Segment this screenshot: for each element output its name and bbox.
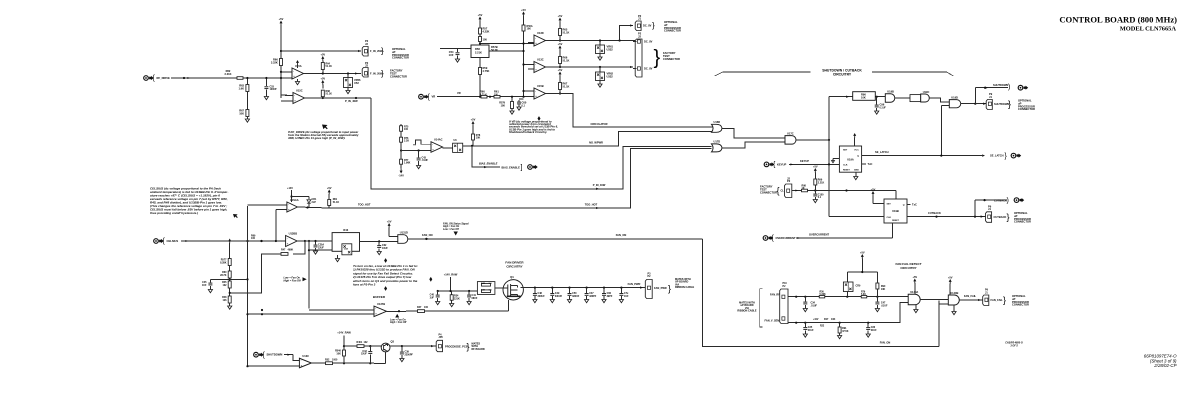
svg-text:01UF: 01UF (808, 329, 814, 332)
svg-text:4.22K: 4.22K (483, 30, 490, 34)
svg-text:VCC: VCC (854, 150, 859, 152)
svg-text:51.1K: 51.1K (326, 93, 333, 96)
svg-text:BIAS_ENABLE: BIAS_ENABLE (479, 161, 498, 165)
svg-text:CUTBACK: CUTBACK (928, 211, 941, 215)
svg-text:): ) (1008, 84, 1010, 91)
svg-text:+5V: +5V (478, 13, 483, 17)
svg-text:CONTROL BOARD (800 MHz): CONTROL BOARD (800 MHz) (1059, 14, 1177, 24)
svg-text:BUFFER: BUFFER (373, 295, 386, 299)
svg-text:-14V: -14V (398, 173, 404, 177)
svg-text:R61: R61 (494, 90, 499, 94)
svg-text:10K: 10K (881, 288, 886, 291)
svg-text:SHUTDOWN: SHUTDOWN (267, 353, 283, 357)
svg-text:100: 100 (483, 38, 488, 42)
svg-text:1000: 1000 (332, 358, 338, 361)
svg-text:U13BB: U13BB (289, 231, 298, 235)
svg-text:2.2K: 2.2K (404, 140, 409, 143)
svg-text:2.21K: 2.21K (225, 72, 232, 76)
svg-text:10K: 10K (861, 96, 866, 100)
svg-text:102: 102 (223, 284, 228, 287)
svg-text:330UF: 330UF (572, 295, 580, 298)
svg-text:TOO_HOT: TOO_HOT (585, 202, 598, 206)
svg-text:0.1UF: 0.1UF (880, 108, 887, 110)
svg-text:U19C: U19C (923, 90, 930, 94)
svg-text:5.36K: 5.36K (820, 294, 826, 296)
svg-text:100: 100 (424, 306, 429, 309)
svg-text:CLK: CLK (843, 165, 848, 167)
svg-text:+5V: +5V (813, 164, 818, 168)
svg-text:OVERCURRENT: OVERCURRENT (776, 236, 796, 240)
svg-text:U322: U322 (607, 75, 614, 79)
svg-text:DC_8V: DC_8V (644, 40, 653, 44)
svg-text:40W, U15BC-Pin 13 goes high (P: 40W, U15BC-Pin 13 goes high (P_IN_40W). (287, 136, 346, 140)
svg-text:1K: 1K (802, 187, 805, 190)
svg-text:CR9: CR9 (856, 285, 861, 288)
svg-text:U17D: U17D (714, 140, 721, 144)
svg-text:MODEL CLN7665A: MODEL CLN7665A (1120, 26, 1177, 33)
svg-text:P_IN_40W: P_IN_40W (593, 183, 606, 187)
svg-text:GND: GND (854, 169, 859, 171)
svg-text:}: } (654, 47, 661, 69)
svg-text:-: - (301, 359, 302, 362)
svg-text:High = Fan Off: High = Fan Off (390, 321, 407, 324)
svg-text:NO_WPWR: NO_WPWR (589, 141, 603, 145)
svg-text:.01UF: .01UF (422, 159, 429, 162)
svg-text:RF BOARD: RF BOARD (472, 348, 485, 351)
svg-text:KEYUP: KEYUP (777, 162, 786, 166)
svg-text:3.32K: 3.32K (271, 61, 278, 65)
svg-text:-: - (293, 70, 294, 73)
svg-text:01UF: 01UF (871, 329, 877, 332)
svg-text:FAN_FAIL: FAN_FAIL (964, 294, 977, 298)
svg-text:FAN_PWR: FAN_PWR (654, 286, 667, 290)
svg-text:U19B: U19B (887, 90, 894, 94)
svg-text:RF_DRIVE: RF_DRIVE (157, 76, 170, 80)
svg-text:R47: R47 (417, 306, 422, 309)
svg-text:2.21K: 2.21K (475, 50, 482, 54)
svg-text:51.1K: 51.1K (563, 31, 570, 35)
svg-text:100: 100 (251, 237, 256, 240)
svg-text:51.1K: 51.1K (563, 59, 570, 63)
svg-text:2.21K: 2.21K (818, 181, 825, 184)
svg-text:U19A: U19A (847, 158, 854, 162)
svg-text:OVERCURRENT: OVERCURRENT (809, 233, 829, 237)
svg-text:1.96K: 1.96K (404, 162, 411, 165)
svg-text:10UF: 10UF (382, 247, 388, 250)
svg-text:}: } (1008, 99, 1011, 109)
svg-text:39PF: 39PF (607, 295, 613, 298)
svg-text:+5V: +5V (387, 219, 392, 223)
svg-text:+10V: +10V (813, 319, 819, 321)
svg-text:RIBBON CABLE: RIBBON CABLE (737, 310, 756, 313)
svg-text:10K: 10K (239, 112, 244, 116)
svg-text:.01UF: .01UF (881, 305, 888, 308)
svg-text:102: 102 (364, 341, 369, 344)
svg-text:JP0: JP0 (439, 336, 444, 339)
svg-text:4.75 K: 4.75 K (480, 93, 487, 96)
svg-text:-: - (535, 63, 536, 66)
svg-text:Shutdown/Cutback Circuitry.: Shutdown/Cutback Circuitry. (509, 130, 548, 134)
svg-text:CELSIUS: CELSIUS (167, 239, 179, 243)
svg-text:330PF: 330PF (589, 295, 597, 298)
svg-text:R43: R43 (343, 228, 348, 232)
svg-text:R52: R52 (325, 358, 330, 361)
svg-text:8.28K: 8.28K (220, 261, 227, 264)
svg-text:): ) (1007, 197, 1009, 204)
svg-text:RESET: RESET (843, 169, 850, 171)
svg-text:+5V: +5V (320, 76, 325, 80)
svg-text:}: } (1007, 212, 1010, 222)
svg-text:KEYUP: KEYUP (800, 159, 809, 163)
svg-text:FAN_PWR: FAN_PWR (628, 282, 641, 286)
svg-text:DC_8V: DC_8V (644, 67, 653, 71)
svg-text:FAN_ON: FAN_ON (422, 233, 433, 237)
svg-text:51.1K: 51.1K (326, 65, 333, 68)
svg-text:CONNECTOR: CONNECTOR (1014, 220, 1031, 224)
svg-text:R47: R47 (281, 249, 286, 252)
svg-text:+14V_RAW: +14V_RAW (337, 331, 351, 335)
svg-text:47.5K: 47.5K (842, 330, 849, 333)
svg-text:}: } (652, 21, 655, 30)
svg-text:1000P: 1000P (270, 88, 277, 91)
svg-text:CONNECTOR: CONNECTOR (1012, 303, 1029, 307)
svg-text:15UF: 15UF (361, 353, 367, 356)
svg-text:FAN_ON: FAN_ON (616, 233, 627, 237)
svg-text:+5V: +5V (558, 14, 563, 18)
svg-text:2200PF: 2200PF (405, 353, 414, 356)
svg-text:U15C: U15C (296, 88, 303, 92)
svg-text:fans at P3-Pin 3: fans at P3-Pin 3 (353, 283, 376, 287)
svg-text:10K: 10K (527, 28, 532, 31)
svg-text:SET: SET (887, 204, 892, 206)
svg-text:+5V: +5V (558, 68, 563, 72)
svg-text:TxC: TxC (868, 162, 873, 166)
svg-text:28.7K: 28.7K (220, 274, 227, 277)
svg-text:P_IN_40W: P_IN_40W (345, 99, 358, 103)
svg-text:R401: R401 (357, 341, 363, 344)
svg-text:}: } (1003, 295, 1006, 305)
svg-text:68UF: 68UF (472, 297, 478, 300)
svg-text:+5V: +5V (871, 187, 876, 191)
svg-text:.01UF: .01UF (811, 305, 818, 308)
svg-text:U137B: U137B (377, 302, 385, 306)
svg-text:330UF: 330UF (555, 295, 563, 298)
svg-text:RESET: RESET (892, 220, 899, 222)
svg-text:SE_LATCH: SE_LATCH (990, 154, 1004, 158)
svg-text:+14V_RAW: +14V_RAW (444, 272, 458, 276)
svg-text:FAN_ON: FAN_ON (880, 341, 891, 345)
svg-text:CIRCULATOR: CIRCULATOR (591, 122, 608, 126)
svg-text:U19D: U19D (951, 95, 958, 99)
svg-text:CONNECTOR: CONNECTOR (1018, 107, 1035, 111)
svg-text:U322: U322 (607, 48, 614, 52)
svg-text:CIRCUITRY: CIRCUITRY (900, 266, 916, 270)
svg-text:CONNECTOR: CONNECTOR (392, 56, 409, 60)
svg-text:]: ] (521, 165, 523, 172)
svg-text:High = Fan Off: High = Fan Off (284, 279, 302, 282)
svg-text:P2: P2 (787, 179, 791, 183)
svg-text:CONNECTOR: CONNECTOR (664, 29, 681, 33)
svg-text:10K: 10K (831, 318, 836, 321)
svg-text:U16D: U16D (714, 120, 721, 124)
svg-text:+5V: +5V (327, 186, 332, 190)
svg-text:U13C: U13C (537, 57, 544, 61)
svg-text:2/28/02-CP: 2/28/02-CP (1153, 363, 1176, 368)
svg-text:+5V: +5V (279, 17, 284, 21)
svg-text:{: { (777, 185, 780, 195)
svg-text:U13D: U13D (537, 31, 544, 35)
svg-text:VR: VR (432, 95, 436, 99)
svg-text:SET: SET (843, 150, 848, 152)
svg-text:+5V: +5V (912, 275, 917, 279)
svg-text:-: - (535, 90, 536, 93)
svg-text:CL: CL (781, 190, 785, 193)
svg-text:1UF: 1UF (429, 296, 434, 299)
svg-text:Low = Fan Off: Low = Fan Off (443, 228, 459, 231)
svg-text:-: - (287, 237, 288, 240)
svg-text:TxC: TxC (912, 203, 917, 207)
svg-text:PROCDIODE_PCB: PROCDIODE_PCB (445, 344, 468, 348)
svg-text:5.3K: 5.3K (861, 294, 866, 296)
svg-text:-: - (432, 143, 433, 146)
svg-text:10K: 10K (501, 105, 506, 108)
svg-text:-: - (375, 308, 376, 311)
svg-text:126: 126 (223, 299, 228, 302)
svg-text:1UF: 1UF (202, 284, 207, 287)
svg-text:-: - (288, 203, 289, 206)
svg-text:Q3: Q3 (391, 340, 395, 344)
svg-text:SHUTDOWN: SHUTDOWN (993, 83, 1008, 87)
svg-text:U140B: U140B (950, 291, 958, 295)
svg-text:U15A: U15A (295, 64, 302, 68)
svg-text:3 OF 5: 3 OF 5 (1010, 345, 1018, 348)
svg-text:CONNECTOR: CONNECTOR (390, 74, 407, 78)
svg-text:FAN_FAIL: FAN_FAIL (991, 298, 1004, 302)
svg-text:51.1K: 51.1K (563, 85, 570, 89)
svg-text:Q: Q (857, 156, 859, 158)
svg-text:CIRCUITRY: CIRCUITRY (506, 264, 522, 268)
svg-text:51.1K: 51.1K (333, 201, 340, 204)
svg-text:}: } (381, 69, 384, 78)
svg-text:U15B: U15B (537, 84, 544, 88)
svg-text:+5V: +5V (521, 8, 526, 12)
svg-text:1.9K: 1.9K (239, 87, 245, 91)
svg-text:1UF: 1UF (449, 53, 454, 57)
svg-text:U131D: U131D (400, 231, 408, 235)
svg-text:U14AC: U14AC (434, 138, 443, 142)
svg-text:RIBBON CABLE: RIBBON CABLE (675, 286, 694, 289)
svg-text:+14V: +14V (287, 187, 293, 190)
svg-text:CONNECTOR: CONNECTOR (663, 57, 680, 61)
svg-text:}: } (381, 47, 384, 56)
svg-text:U17C: U17C (787, 131, 794, 135)
svg-text:CLK: CLK (887, 217, 892, 219)
svg-text:10K: 10K (336, 352, 341, 355)
svg-text:499K: 499K (288, 249, 294, 252)
svg-text:2LP: 2LP (312, 201, 317, 204)
svg-text:R60: R60 (480, 90, 485, 94)
svg-text:U19B: U19B (892, 209, 899, 213)
svg-text:4.75K: 4.75K (483, 69, 490, 73)
svg-text:SE_LATCH: SE_LATCH (875, 150, 889, 154)
svg-text:+5V: +5V (558, 42, 563, 46)
svg-text:Q: Q (903, 205, 905, 207)
svg-text:R22: R22 (820, 326, 825, 328)
svg-text:CUTBACK: CUTBACK (994, 198, 1007, 202)
svg-text:R17: R17 (824, 318, 829, 321)
svg-text:+5V: +5V (320, 52, 325, 56)
svg-text:-: - (535, 37, 536, 40)
svg-text:+5V: +5V (860, 250, 865, 254)
svg-text:U13C: U13C (302, 354, 309, 358)
svg-text:R58: R58 (475, 47, 480, 51)
svg-text:10K: 10K (476, 137, 481, 140)
svg-text:TR: TR (413, 144, 416, 146)
svg-text:BIAS_ENABLE: BIAS_ENABLE (502, 166, 521, 170)
svg-text:thus providing on/off hysteres: thus providing on/off hysteresis.) (150, 211, 198, 215)
svg-text:+5V: +5V (948, 275, 953, 279)
svg-text:}: } (668, 283, 671, 293)
svg-text:C96: C96 (880, 103, 885, 107)
svg-text:1UF: 1UF (624, 295, 629, 298)
svg-text:DC_8V: DC_8V (643, 24, 652, 28)
svg-text:TOO_HOT: TOO_HOT (358, 203, 371, 207)
svg-text:VR: VR (457, 91, 461, 95)
svg-text:}: } (467, 341, 470, 351)
svg-text:22UF: 22UF (318, 246, 324, 249)
svg-text:CONNECTOR: CONNECTOR (760, 190, 777, 194)
svg-text:CIRCUITRY: CIRCUITRY (833, 72, 852, 76)
svg-text:U52: U52 (354, 81, 359, 85)
svg-text:330UF: 330UF (538, 295, 546, 298)
svg-text:Q1: Q1 (510, 275, 514, 279)
svg-text:221K: 221K (454, 297, 460, 300)
svg-text:+5V: +5V (471, 117, 476, 121)
svg-text:CUTBACK: CUTBACK (994, 215, 1007, 219)
svg-text:-: - (294, 94, 295, 97)
svg-text:100: 100 (404, 128, 409, 131)
